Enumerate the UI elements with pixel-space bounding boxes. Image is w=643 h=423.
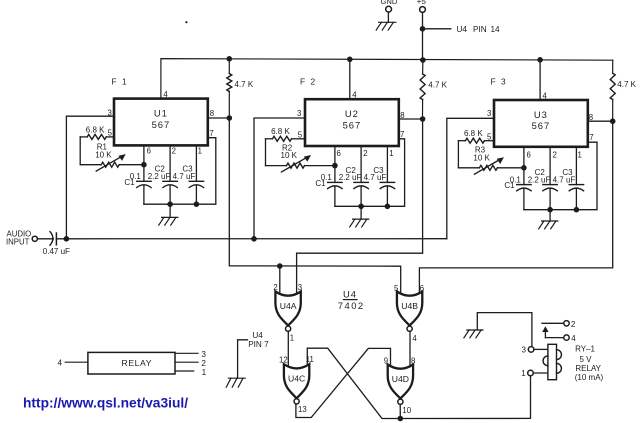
pin labels U2 — [297, 91, 405, 159]
svg-text:8: 8 — [400, 111, 404, 120]
node C3 rail junction (U1) — [194, 201, 200, 207]
svg-text:4.7 K: 4.7 K — [235, 80, 254, 89]
relay contact 4 — [545, 334, 576, 343]
svg-text:3: 3 — [487, 109, 491, 118]
IC U1 567 — [114, 99, 208, 146]
resistor R4 4.7K (U1 pull-up) — [227, 59, 254, 118]
wire U4D out to U4C pin11 — [307, 348, 400, 418]
wire cap lower stubs (U1) — [144, 186, 197, 204]
label 5 V — [579, 355, 592, 364]
svg-text:U1: U1 — [154, 108, 168, 119]
label U4 PIN 7 — [248, 331, 269, 349]
svg-text:5: 5 — [298, 131, 303, 140]
wire U1 pin8 to pull-up — [208, 117, 230, 119]
node U3 output junction — [610, 118, 616, 124]
relay contact 2 — [542, 320, 576, 329]
potentiometer R3 10K — [458, 146, 524, 175]
wire pin1 riser (U3) — [575, 147, 577, 185]
svg-text:4.7 uF: 4.7 uF — [173, 172, 196, 181]
svg-text:567: 567 — [343, 119, 362, 130]
svg-text:F 2: F 2 — [300, 77, 317, 87]
wire pin2 riser (U2) — [360, 146, 362, 182]
wire U2 pin8 to pull-up — [399, 118, 423, 120]
wire ground rail (U3) — [524, 142, 597, 210]
svg-text:C1: C1 — [124, 178, 135, 187]
wire U3 pin3 branch — [447, 118, 494, 238]
svg-text:4.7 uF: 4.7 uF — [553, 175, 576, 184]
svg-text:4.7 K: 4.7 K — [428, 80, 447, 89]
svg-text:11: 11 — [306, 355, 314, 364]
wire pin2 riser (U1) — [169, 145, 171, 181]
gate U4A 7402 NOR — [275, 292, 300, 332]
svg-text:INPUT: INPUT — [6, 238, 30, 247]
node U4D output junction — [398, 416, 404, 422]
wire U3 pin4 riser — [539, 60, 541, 100]
svg-text:U3: U3 — [534, 109, 548, 120]
svg-text:8: 8 — [589, 113, 593, 122]
svg-text:PIN 7: PIN 7 — [248, 340, 269, 349]
svg-text:6.8 K: 6.8 K — [464, 129, 483, 138]
label 10 mA — [575, 373, 604, 382]
resistor 6.8K (U2) — [266, 127, 306, 141]
wire pin1 riser (U1) — [195, 145, 197, 181]
svg-text:U2: U2 — [345, 108, 359, 119]
node C2 rail junction (U2) — [358, 204, 364, 210]
label RELAY value — [575, 364, 601, 373]
wire pin6 riser (U1) — [143, 145, 145, 181]
wire cap lower stubs (U2) — [335, 187, 388, 206]
svg-text:3: 3 — [522, 345, 527, 354]
wire U3 pin8 to pull-up — [588, 120, 613, 122]
gate U4D 7402 NOR — [388, 365, 413, 405]
svg-text:6: 6 — [337, 149, 341, 158]
wire ground stem (U1) — [169, 204, 171, 217]
pin labels U4A — [273, 283, 302, 343]
wire R1 loop left — [79, 137, 81, 165]
svg-text:3: 3 — [298, 283, 302, 292]
node audio-U2 junction — [251, 236, 257, 242]
wire U4B out to U4D pin8 — [409, 332, 411, 368]
gate U4B 7402 NOR — [397, 292, 422, 332]
relay RY-1 coil — [543, 344, 561, 379]
terminal +5 — [417, 0, 427, 12]
svg-text:2: 2 — [273, 283, 277, 292]
pin labels U4B — [394, 284, 424, 343]
node C3 rail junction (U3) — [574, 207, 580, 213]
wire U2 pin3 branch — [254, 118, 305, 239]
svg-text:U4C: U4C — [288, 374, 305, 384]
IC U2 567 — [305, 99, 399, 146]
resistor 6.8K (U1) — [80, 125, 114, 139]
pin labels U4D — [384, 357, 416, 416]
node bus junction at R4 4.7K — [227, 56, 233, 62]
wire GND stem — [387, 12, 389, 22]
svg-text:7: 7 — [209, 129, 213, 138]
svg-text:2: 2 — [553, 150, 557, 159]
capacitor C2 2.2uF (U3) — [528, 168, 558, 191]
wire ground stem (U2) — [360, 206, 362, 219]
svg-text:4.7 uF: 4.7 uF — [364, 173, 387, 182]
svg-text:http://www.qsl.net/va3iul/: http://www.qsl.net/va3iul/ — [23, 396, 188, 411]
resistor R6 4.7K (U3 pull-up) — [610, 60, 636, 121]
svg-text:2: 2 — [363, 149, 367, 158]
node F 2 — [300, 77, 317, 87]
capacitor C2 2.2uF (U2) — [339, 166, 369, 189]
wire cap lower stubs (U3) — [524, 189, 577, 210]
svg-text:RY–1: RY–1 — [575, 344, 595, 353]
node bus junction U3 pin4 — [537, 57, 543, 63]
terminal audio input — [32, 236, 37, 241]
wire U4 pin14 stub — [423, 28, 451, 30]
wire R2 loop left — [265, 139, 267, 166]
wire relay pin4 lead — [65, 361, 88, 363]
svg-text:+5: +5 — [417, 0, 427, 6]
gate U4C 7402 NOR — [284, 364, 309, 404]
label U4 PIN 14 — [457, 25, 501, 34]
svg-text:1: 1 — [578, 150, 582, 159]
svg-text:F 1: F 1 — [112, 77, 129, 87]
terminal relay pin3 — [522, 345, 534, 354]
svg-text:4: 4 — [543, 91, 548, 100]
wire pin1 to coil — [533, 372, 548, 374]
svg-text:8: 8 — [411, 357, 415, 366]
svg-text:4: 4 — [58, 359, 63, 368]
svg-text:GND: GND — [381, 0, 398, 6]
wire U4A pin2 riser — [279, 266, 281, 295]
svg-text:9: 9 — [384, 357, 388, 366]
wire ground rail (U2) — [335, 139, 405, 207]
label RY-1 — [575, 344, 595, 353]
wire U4C out to U4D pin9 — [296, 348, 391, 417]
potentiometer R1 10K — [80, 143, 144, 172]
wire U4 pin7 bracket — [238, 340, 248, 378]
wire input to cap — [37, 238, 53, 240]
capacitor C1 0.1 (U1) — [124, 172, 151, 187]
wire U1 pin3 branch — [66, 116, 114, 239]
node U4 pin14 tap — [420, 26, 426, 32]
svg-text:3: 3 — [201, 350, 206, 359]
capacitor C2 2.2uF (U1) — [148, 165, 178, 188]
node bus junction +5 feed — [420, 57, 426, 63]
wire U2 pin4 riser — [349, 59, 351, 99]
node audio-U1 junction — [64, 236, 70, 242]
svg-text:2.2 uF: 2.2 uF — [148, 172, 171, 181]
svg-text:RELAY: RELAY — [575, 364, 601, 373]
capacitor C4 0.47uF — [43, 232, 70, 257]
label relay pin4 — [58, 359, 63, 368]
wire ground rail (U1) — [144, 138, 216, 205]
svg-text:14: 14 — [491, 25, 501, 34]
svg-text:6: 6 — [147, 147, 151, 156]
node C3 rail junction (U2) — [385, 204, 391, 210]
pin labels U4C — [279, 355, 314, 414]
node C2 rail junction (U3) — [547, 207, 553, 213]
svg-text:1: 1 — [202, 368, 207, 377]
svg-text:C1: C1 — [504, 181, 515, 190]
terminal GND — [381, 0, 398, 12]
wire +5 bus rail — [161, 59, 613, 99]
svg-text:7: 7 — [589, 133, 593, 142]
svg-text:1: 1 — [389, 149, 393, 158]
svg-text:10: 10 — [402, 406, 411, 415]
wire U4A out to U4C pin12 — [287, 332, 289, 368]
svg-text:PIN: PIN — [473, 25, 487, 34]
svg-text:5: 5 — [108, 129, 113, 138]
svg-text:4.7 K: 4.7 K — [617, 80, 636, 89]
svg-text:7: 7 — [400, 130, 404, 139]
wire pin1 riser (U2) — [386, 146, 388, 182]
wire U3 output down to U4B pin6 — [419, 121, 612, 294]
wire relay pin2 lead — [175, 359, 206, 368]
capacitor C1 0.1 (U3) — [504, 175, 531, 190]
svg-text:2.2 uF: 2.2 uF — [528, 175, 551, 184]
svg-text:U4: U4 — [252, 331, 263, 340]
svg-text:4: 4 — [412, 334, 417, 343]
svg-text:13: 13 — [298, 405, 307, 414]
svg-text:4: 4 — [571, 334, 576, 343]
wire U1 output down — [229, 118, 400, 295]
svg-text:6: 6 — [420, 284, 424, 293]
resistor 6.8K (U3) — [458, 129, 494, 143]
relay legend box RELAY — [88, 352, 175, 374]
node R1 wiper junction — [141, 162, 147, 168]
svg-text:5: 5 — [487, 133, 492, 142]
node F 1 — [112, 77, 129, 87]
node bus junction U2 pin4 — [347, 57, 353, 63]
svg-text:2: 2 — [201, 359, 206, 368]
ground GND terminal — [376, 22, 396, 30]
svg-text:F 3: F 3 — [491, 77, 508, 87]
svg-text:12: 12 — [279, 355, 288, 364]
wire relay pin3 lead — [175, 350, 206, 359]
wire U4D out to relay — [400, 376, 530, 419]
svg-text:2: 2 — [571, 320, 576, 329]
svg-text:8: 8 — [210, 109, 214, 118]
wire U4D output stem — [399, 405, 401, 419]
svg-text:5 V: 5 V — [579, 355, 592, 364]
svg-text:2.2 uF: 2.2 uF — [339, 173, 362, 182]
ground U4 pin7 — [226, 378, 245, 387]
label URL watermark — [23, 396, 188, 411]
svg-text:C1: C1 — [315, 179, 326, 188]
svg-text:U4D: U4D — [392, 374, 409, 384]
wire relay pin1 lead — [175, 368, 207, 377]
svg-text:1: 1 — [290, 334, 294, 343]
svg-text:0.47 uF: 0.47 uF — [43, 247, 70, 256]
svg-text:5: 5 — [394, 284, 399, 293]
wire pin6 riser (U2) — [334, 146, 336, 182]
svg-text:7402: 7402 — [338, 300, 365, 311]
node stray dot — [185, 21, 187, 23]
potentiometer R2 10K — [266, 143, 335, 172]
svg-text:U4: U4 — [343, 289, 357, 300]
svg-text:(10 mA): (10 mA) — [575, 373, 604, 382]
svg-text:U4B: U4B — [401, 301, 418, 311]
svg-text:1: 1 — [198, 147, 202, 156]
wire pin6 riser (U3) — [523, 147, 525, 185]
capacitor C3 4.7uF (U1) — [173, 165, 204, 188]
ground U1 cell — [159, 217, 178, 225]
svg-text:6.8 K: 6.8 K — [86, 125, 105, 134]
wire pin2 riser (U3) — [549, 147, 551, 185]
svg-text:10 K: 10 K — [95, 150, 112, 159]
svg-text:3: 3 — [108, 108, 112, 117]
resistor R5 4.7K (U2 pull-up) — [420, 60, 448, 119]
svg-text:4: 4 — [163, 90, 168, 99]
svg-text:3: 3 — [297, 109, 301, 118]
wire pin3 to coil — [534, 348, 548, 350]
node F 3 — [491, 77, 508, 87]
capacitor C3 4.7uF (U3) — [553, 168, 584, 191]
node U4A pin2 branch — [277, 263, 283, 269]
wire relay ground link — [477, 313, 532, 347]
svg-text:567: 567 — [532, 120, 551, 131]
svg-text:10 K: 10 K — [473, 153, 490, 162]
svg-text:1: 1 — [521, 369, 526, 378]
svg-text:6.8 K: 6.8 K — [271, 127, 290, 136]
svg-text:10 K: 10 K — [281, 151, 298, 160]
svg-text:2: 2 — [172, 147, 176, 156]
svg-text:567: 567 — [152, 119, 171, 130]
pin labels U3 — [487, 91, 594, 159]
wire ground stem (U3) — [549, 210, 551, 221]
node R2 wiper junction — [332, 163, 338, 169]
ground U2 cell — [350, 219, 369, 227]
ground U3 cell — [539, 221, 558, 229]
node U1 output junction — [227, 115, 233, 121]
node C2 rail junction (U1) — [167, 201, 173, 207]
svg-text:RELAY: RELAY — [122, 358, 153, 368]
wire +5 down to bus — [422, 12, 424, 60]
node U2 output junction — [420, 116, 426, 122]
wire audio rail — [56, 238, 446, 240]
svg-text:U4A: U4A — [280, 301, 297, 311]
wire R3 loop left — [457, 141, 459, 168]
svg-text:U4: U4 — [457, 25, 468, 34]
capacitor C1 0.1 (U2) — [315, 173, 342, 188]
ground relay — [464, 330, 483, 338]
label AUDIO INPUT — [6, 230, 31, 247]
wire U2 output down to U4A pin3 — [297, 119, 423, 295]
capacitor C3 4.7uF (U2) — [364, 166, 395, 189]
svg-text:6: 6 — [527, 150, 531, 159]
svg-text:4: 4 — [352, 91, 357, 100]
pin labels U1 — [108, 90, 215, 156]
IC U3 567 — [494, 100, 588, 147]
node R3 wiper junction — [521, 165, 527, 171]
terminal relay pin1 — [521, 369, 533, 378]
label U4 7402 — [338, 289, 365, 311]
relay armature arrow — [542, 326, 548, 337]
